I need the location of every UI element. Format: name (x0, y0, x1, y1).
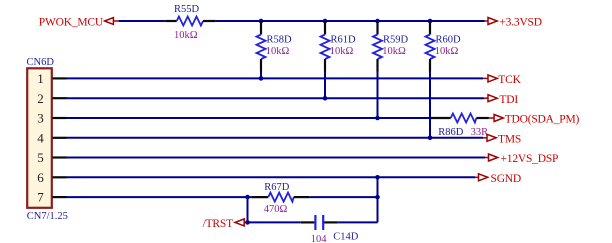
junction on rail at R61D (323, 19, 328, 24)
junction bottom at TRST vertical (245, 220, 250, 225)
pin 5 stub (53, 156, 67, 158)
svg-text:4: 4 (37, 130, 44, 145)
svg-text:CN7/1.25: CN7/1.25 (27, 211, 68, 222)
svg-text:1: 1 (37, 71, 44, 86)
svg-text:R55D: R55D (174, 4, 200, 15)
junction row3 R59D (375, 116, 380, 121)
svg-text:R58D: R58D (267, 35, 293, 46)
resistor R55D (165, 17, 215, 26)
wire PWOK_MCU to R55D (119, 20, 166, 22)
svg-text:104: 104 (311, 234, 328, 243)
svg-text:33R: 33R (471, 127, 489, 138)
svg-text:R59D: R59D (383, 35, 409, 46)
connector CN6D body (27, 68, 52, 208)
svg-text:PWOK_MCU: PWOK_MCU (39, 17, 104, 29)
junction row6 at vertical (375, 175, 380, 180)
junction row2 R61D (323, 96, 328, 101)
svg-text:C14D: C14D (333, 232, 359, 243)
junction on rail at R58D (259, 19, 264, 24)
port arrow PWOK_MCU (105, 18, 119, 25)
svg-text:10kΩ: 10kΩ (382, 46, 406, 57)
port arrow TDO (489, 115, 503, 122)
junction row7 right (375, 195, 380, 200)
wire row7 R67D to vertical (309, 196, 377, 198)
port arrow TMS (483, 134, 496, 141)
svg-text:2: 2 (37, 91, 44, 106)
wire row4 pin4 to TMS (67, 137, 484, 139)
pin 7 stub (53, 196, 67, 198)
svg-text:R86D: R86D (438, 127, 464, 138)
svg-text:TDI: TDI (499, 94, 518, 106)
resistor R61D (321, 21, 330, 98)
svg-text:10kΩ: 10kΩ (330, 46, 354, 57)
port arrow +12VS_DSP (485, 154, 498, 161)
svg-text:7: 7 (37, 190, 44, 205)
wire bottom TRST to C14D (248, 221, 300, 223)
wire vertical TRST drop (247, 197, 249, 222)
wire row7 pin7 to R67D (67, 196, 253, 198)
junction row4 R60D (428, 136, 433, 141)
svg-text:/TRST: /TRST (203, 218, 233, 230)
svg-text:+3.3VSD: +3.3VSD (499, 17, 541, 29)
junction row7 at /TRST vertical (245, 195, 250, 200)
pin 1 stub (53, 77, 67, 79)
wire row1 pin1 to TCK (67, 77, 484, 79)
svg-text:R60D: R60D (436, 35, 462, 46)
pin 4 stub (53, 137, 67, 139)
svg-text:470Ω: 470Ω (264, 204, 288, 215)
svg-text:R61D: R61D (331, 35, 357, 46)
svg-text:TMS: TMS (498, 134, 521, 146)
svg-text:CN6D: CN6D (27, 57, 55, 68)
wire row6 pin6 to SGND (67, 176, 476, 178)
power port +3.3VSD (485, 18, 498, 25)
port arrow /TRST (235, 219, 248, 226)
wire row5 pin5 to +12VS_DSP (67, 157, 486, 159)
resistor R86D (431, 114, 489, 123)
wire bottom C14D to vertical (338, 221, 378, 223)
svg-text:R67D: R67D (264, 182, 290, 193)
pin 6 stub (53, 176, 67, 178)
junction on rail at R59D (375, 19, 380, 24)
wire vertical SGND drop (377, 177, 379, 222)
wire top rail (216, 20, 485, 22)
resistor R59D (373, 21, 382, 118)
resistor R58D (257, 21, 266, 78)
svg-text:10kΩ: 10kΩ (266, 46, 290, 57)
svg-text:6: 6 (37, 170, 44, 185)
wire row3 pin3 to R86D (67, 117, 432, 119)
svg-text:+12VS_DSP: +12VS_DSP (501, 153, 559, 165)
port arrow TCK (483, 75, 497, 82)
svg-text:SGND: SGND (491, 173, 522, 185)
pin 3 stub (53, 117, 67, 119)
junction on rail at R60D (428, 19, 433, 24)
port arrow TDI (484, 95, 497, 102)
svg-text:10kΩ: 10kΩ (174, 30, 198, 41)
resistor R67D (252, 193, 309, 202)
resistor R60D (426, 21, 435, 138)
pin 2 stub (53, 97, 67, 99)
port arrow SGND (475, 174, 488, 181)
svg-text:3: 3 (37, 111, 44, 126)
svg-text:TDO(SDA_PM): TDO(SDA_PM) (505, 114, 580, 126)
svg-text:5: 5 (37, 150, 44, 165)
svg-text:TCK: TCK (498, 74, 521, 86)
capacitor C14D (301, 215, 338, 230)
svg-text:10kΩ: 10kΩ (435, 46, 459, 57)
wire row2 pin2 to TDI (67, 97, 485, 99)
junction row1 R58D (259, 76, 264, 81)
